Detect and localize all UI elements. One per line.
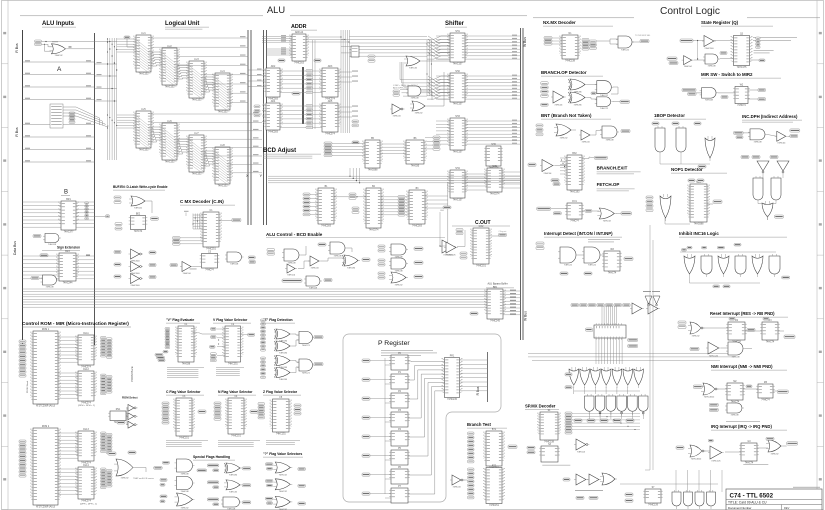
net label xyxy=(528,163,536,166)
svg-text:SH2: SH2 xyxy=(455,71,460,73)
net label xyxy=(213,486,219,489)
svg-text:74HC139: 74HC139 xyxy=(648,505,658,507)
wires xyxy=(707,203,713,205)
wires xyxy=(693,40,704,42)
svg-text:74HC245: 74HC245 xyxy=(490,321,500,323)
net label xyxy=(652,122,659,125)
net label xyxy=(693,385,702,388)
net label xyxy=(669,62,678,65)
cascade bundle into LU2 xyxy=(151,52,162,53)
svg-text:Logical Unit: Logical Unit xyxy=(165,21,199,27)
svg-text:74HC08: 74HC08 xyxy=(753,141,762,143)
svg-text:74HC151: 74HC151 xyxy=(179,438,189,440)
inhibit OR gate 3 xyxy=(718,254,729,277)
svg-text:74HC00: 74HC00 xyxy=(134,207,143,209)
OR gate xyxy=(273,496,292,510)
net labels xyxy=(582,39,589,42)
logical unit IC LU3 xyxy=(187,59,206,102)
net label xyxy=(292,92,300,95)
net label xyxy=(213,503,219,506)
net label xyxy=(688,92,697,95)
net label xyxy=(763,318,769,321)
BCD detect IC B6 xyxy=(404,138,426,168)
net label xyxy=(160,484,165,487)
sync AND gate Y4 xyxy=(771,176,781,203)
svg-text:C flag out: C flag out xyxy=(499,230,507,233)
svg-text:74HC151: 74HC151 xyxy=(489,505,499,507)
net label xyxy=(207,498,219,501)
svg-text:74HC04: 74HC04 xyxy=(581,141,590,143)
net label xyxy=(565,373,572,376)
net label xyxy=(211,328,217,331)
MIR distribution bus xyxy=(302,67,304,124)
buffer xyxy=(708,446,724,462)
net labels xyxy=(162,402,169,405)
P flag flip-flop P2 xyxy=(389,391,410,408)
net label xyxy=(680,39,693,42)
net label xyxy=(600,419,608,422)
OR gate xyxy=(274,368,292,381)
svg-text:ADDR: ADDR xyxy=(291,24,307,30)
AND gate xyxy=(595,81,614,97)
buffer xyxy=(702,36,716,50)
adder IC AD5 xyxy=(320,100,340,136)
svg-text:74HC688: 74HC688 xyxy=(368,170,378,172)
svg-text:74HC21: 74HC21 xyxy=(600,108,609,110)
AND gate xyxy=(389,258,408,272)
svg-text:74HC251: 74HC251 xyxy=(206,249,216,251)
pass-through diagonal wires xyxy=(190,66,204,77)
logical unit IC LU1 xyxy=(134,33,153,76)
svg-text:Interrupt Detect (INT.ON / INT: Interrupt Detect (INT.ON / INT.INP) xyxy=(544,231,613,236)
svg-text:74HC85: 74HC85 xyxy=(411,166,420,168)
A register input wires xyxy=(23,61,95,63)
X Y bus taps to adders xyxy=(249,69,267,71)
OR gate xyxy=(274,341,292,354)
net labels xyxy=(165,328,170,330)
1BOP AND gate D2 xyxy=(676,126,686,155)
decode OR gate row1 2 xyxy=(580,367,590,388)
net label xyxy=(736,136,743,139)
svg-text:ALU Control - BCD Enable: ALU Control - BCD Enable xyxy=(266,232,323,237)
net label xyxy=(709,403,718,406)
pass-through diagonal wires xyxy=(163,128,177,139)
net labels xyxy=(646,196,653,199)
wires xyxy=(465,173,487,175)
sync buffer Y1 xyxy=(757,161,769,173)
MIR2 latch IC M1 xyxy=(590,323,626,340)
MIR SW IC W2 xyxy=(733,84,750,107)
svg-text:X: X xyxy=(246,173,249,178)
svg-text:DL11: DL11 xyxy=(83,333,89,335)
logical unit IC LU6 xyxy=(160,121,179,164)
wire B1 to B2 xyxy=(334,196,366,198)
wire xyxy=(422,60,450,62)
label left of M1 xyxy=(585,328,592,331)
net labels xyxy=(267,249,275,252)
logical unit IC LU8 xyxy=(213,145,232,188)
bottom AND gate 2 xyxy=(684,490,693,509)
wires xyxy=(758,202,765,205)
wires B5 to B6 xyxy=(380,143,406,145)
svg-text:74HC283: 74HC283 xyxy=(412,226,422,228)
AND gate xyxy=(406,86,423,99)
svg-text:LU4: LU4 xyxy=(220,71,225,73)
svg-text:DL13: DL13 xyxy=(83,429,89,431)
junction dots xyxy=(218,339,219,340)
net label xyxy=(160,495,167,498)
OR gate xyxy=(404,56,422,69)
net labels xyxy=(306,70,313,73)
net label D xyxy=(708,439,713,442)
svg-text:74HC688: 74HC688 xyxy=(694,224,704,226)
light vertical pair xyxy=(312,40,314,129)
wires xyxy=(292,334,299,335)
OR gate xyxy=(389,272,408,286)
BCD IC B1 xyxy=(316,186,336,228)
net label xyxy=(157,356,165,359)
svg-text:74HC04: 74HC04 xyxy=(287,274,296,276)
P flag flip-flop P3 xyxy=(389,410,410,427)
adder IC AD2 xyxy=(264,65,282,101)
wires PR1 to R bus xyxy=(460,359,488,361)
net label xyxy=(640,40,649,43)
note text xyxy=(381,349,433,352)
buffer xyxy=(682,56,694,68)
wire xyxy=(370,379,391,381)
adder IC AD3 xyxy=(320,65,340,101)
svg-text:Y: Y xyxy=(260,173,263,178)
OR gate xyxy=(597,208,616,222)
bottom AND gate 3 xyxy=(695,490,704,509)
NMI IC M2 xyxy=(725,381,745,404)
wires xyxy=(552,37,562,39)
OR gate xyxy=(554,124,573,139)
net label xyxy=(265,463,273,466)
wire xyxy=(457,246,465,248)
svg-text:IRQ Interrupt (IRQ -> IRQ PND): IRQ Interrupt (IRQ -> IRQ PND) xyxy=(711,424,772,429)
svg-text:"V" Flag Evaluate: "V" Flag Evaluate xyxy=(166,318,194,322)
net label xyxy=(746,385,752,388)
net label xyxy=(362,416,370,419)
svg-text:ROM 1: ROM 1 xyxy=(42,329,50,331)
svg-text:74HC153: 74HC153 xyxy=(139,74,149,76)
svg-text:74HC86: 74HC86 xyxy=(229,474,238,476)
net labels xyxy=(101,374,107,377)
svg-text:LU5: LU5 xyxy=(141,109,146,111)
svg-text:BX2: BX2 xyxy=(572,153,577,155)
bypass buffer IC BB1 xyxy=(485,287,505,323)
svg-text:74HC153: 74HC153 xyxy=(139,150,149,152)
bottom AND gate 1 xyxy=(672,490,681,509)
net label xyxy=(597,304,605,307)
bottom AND gate 4 xyxy=(707,490,716,509)
reset IC R2 xyxy=(726,320,747,344)
MIR latch DL14 xyxy=(76,465,96,503)
net labels xyxy=(306,105,313,108)
svg-text:R Bus: R Bus xyxy=(15,43,19,53)
bus xyxy=(22,30,24,345)
net label xyxy=(155,354,163,357)
net labels xyxy=(378,259,385,262)
sign ext output bundle xyxy=(76,255,95,257)
svg-text:74HC32: 74HC32 xyxy=(120,477,129,479)
net label xyxy=(589,496,598,499)
B output bundle xyxy=(76,201,95,203)
buffer xyxy=(129,262,144,275)
svg-text:74HC151: 74HC151 xyxy=(476,266,486,268)
long vertical wires xyxy=(649,225,651,470)
svg-text:BT1: BT1 xyxy=(492,429,497,431)
svg-text:74HC4002: 74HC4002 xyxy=(691,458,702,460)
svg-text:SH4: SH4 xyxy=(455,168,460,170)
C MX decoder IC C1 xyxy=(201,210,221,251)
net label xyxy=(667,57,677,60)
net label xyxy=(584,272,592,275)
net label FETCH xyxy=(537,207,551,210)
svg-text:74HC21: 74HC21 xyxy=(621,49,630,51)
svg-text:C Flag Value Selector: C Flag Value Selector xyxy=(166,390,201,394)
net label xyxy=(698,165,706,168)
net label xyxy=(628,338,638,341)
svg-text:74HC74: 74HC74 xyxy=(761,400,770,402)
buffer xyxy=(129,274,144,287)
MIR latch DL12 xyxy=(76,369,96,405)
net label xyxy=(362,454,370,457)
svg-text:74HC540: 74HC540 xyxy=(130,285,140,287)
net label xyxy=(741,156,749,159)
pass-through diagonal wires xyxy=(216,152,230,163)
net label xyxy=(682,249,687,252)
net label xyxy=(267,484,273,487)
net label xyxy=(414,247,423,250)
branch exit IC BX2 xyxy=(565,153,584,194)
buffer xyxy=(126,405,138,412)
wire xyxy=(42,44,52,47)
svg-text:74HC32: 74HC32 xyxy=(229,491,238,493)
net label xyxy=(114,275,121,278)
svg-text:74HC244: 74HC244 xyxy=(63,283,73,285)
ADDR IC AD1 xyxy=(290,31,308,65)
net label xyxy=(697,179,704,182)
svg-text:1BOP Detector: 1BOP Detector xyxy=(654,113,685,118)
svg-text:BB1: BB1 xyxy=(493,287,498,289)
svg-text:NMI Interrupt (NMI -> NMI PND): NMI Interrupt (NMI -> NMI PND) xyxy=(711,364,773,369)
svg-text:74HC32: 74HC32 xyxy=(180,507,189,509)
Z selector IC F5 xyxy=(270,397,291,436)
pass-through diagonal wires xyxy=(137,40,151,51)
svg-text:AD3: AD3 xyxy=(328,65,333,68)
wire row xyxy=(42,41,118,43)
net labels Q in xyxy=(754,49,774,52)
net label xyxy=(278,59,285,62)
svg-text:74HC32: 74HC32 xyxy=(603,220,612,222)
wires xyxy=(555,165,567,167)
net labels xyxy=(69,112,75,114)
svg-text:74HC574: 74HC574 xyxy=(369,230,379,232)
net label xyxy=(717,246,724,249)
svg-text:74HC251: 74HC251 xyxy=(228,364,238,366)
svg-text:74HC32: 74HC32 xyxy=(691,335,700,337)
svg-text:Inhibit INC16 Logic: Inhibit INC16 Logic xyxy=(679,231,719,236)
svg-text:74HC157: 74HC157 xyxy=(453,200,463,202)
logical unit input bundle xyxy=(107,38,109,160)
buffer xyxy=(129,249,144,262)
AND gate xyxy=(558,247,578,266)
shifter IC SH1 xyxy=(448,31,467,66)
net label xyxy=(352,141,359,144)
svg-text:Reset Interrupt (RES -> RB PND: Reset Interrupt (RES -> RB PND) xyxy=(710,311,775,316)
BCD result bus xyxy=(268,175,521,177)
svg-text:FETCH.OP: FETCH.OP xyxy=(597,182,620,187)
net labels xyxy=(107,469,113,472)
OR gate xyxy=(224,480,242,493)
MIR latch DL13 xyxy=(76,429,96,465)
svg-text:PROM Bank: PROM Bank xyxy=(130,366,134,382)
OR gate xyxy=(129,196,147,209)
OR gate xyxy=(600,473,617,485)
AND gate xyxy=(600,126,619,141)
shifter input weave xyxy=(427,36,450,39)
net labels xyxy=(101,432,107,435)
AND gate xyxy=(328,242,347,257)
net label xyxy=(574,419,582,422)
clock chain wire xyxy=(384,358,386,494)
decode AND gate row2 5 xyxy=(628,394,638,415)
svg-text:BRANCH.OP Detector: BRANCH.OP Detector xyxy=(541,70,587,75)
wires xyxy=(301,246,306,255)
net label xyxy=(242,501,251,504)
note below xyxy=(743,463,768,466)
svg-text:74HC163: 74HC163 xyxy=(294,63,304,65)
aux IC SH5 xyxy=(485,166,504,196)
svg-text:74HC157: 74HC157 xyxy=(453,152,463,154)
net label xyxy=(758,98,766,101)
title block xyxy=(726,487,822,510)
wires xyxy=(717,388,727,390)
svg-text:Control Logic: Control Logic xyxy=(660,6,720,17)
net labels xyxy=(468,432,475,435)
sign extension IC BR3 xyxy=(57,251,78,285)
net label xyxy=(571,304,579,307)
svg-text:ROM Select: ROM Select xyxy=(122,395,138,399)
net label xyxy=(580,304,588,307)
net labels col2 xyxy=(590,40,597,43)
C1 out wire xyxy=(219,220,232,222)
AND gate xyxy=(297,332,315,347)
svg-text:74HC32: 74HC32 xyxy=(409,67,418,69)
IRQ IC G3 xyxy=(739,441,759,465)
svg-text:74HC04: 74HC04 xyxy=(684,66,693,68)
bus xyxy=(522,28,524,340)
net labels xyxy=(107,433,113,436)
net label xyxy=(158,359,165,362)
svg-text:74HC08: 74HC08 xyxy=(410,97,419,99)
svg-text:74HC02: 74HC02 xyxy=(54,55,63,57)
shifter aux IC SH4 xyxy=(448,168,467,202)
svg-text:LU7: LU7 xyxy=(194,133,199,135)
P flag flip-flop P1 xyxy=(389,372,410,389)
BCD detect IC B5 xyxy=(363,138,382,172)
buffer xyxy=(646,303,660,314)
branch test IC BT1 xyxy=(484,429,504,470)
net label xyxy=(267,502,273,505)
net label xyxy=(747,328,755,331)
net label xyxy=(114,251,121,254)
svg-text:74HC08: 74HC08 xyxy=(48,244,57,246)
net label xyxy=(672,122,679,125)
svg-text:74HC04: 74HC04 xyxy=(392,115,401,117)
svg-text:ALU Bypass Buffer: ALU Bypass Buffer xyxy=(488,283,508,286)
svg-text:74HC32: 74HC32 xyxy=(414,112,423,114)
buffer xyxy=(390,104,405,117)
net label xyxy=(314,59,321,62)
net label xyxy=(614,304,622,307)
bundle taps into LU5 xyxy=(117,114,136,116)
shifter output wires to W bus xyxy=(465,35,521,37)
shifter IC SH2 xyxy=(448,71,467,106)
wires from note box to logical unit bundle xyxy=(63,107,100,125)
net label xyxy=(623,304,631,307)
state register IC Q3 xyxy=(731,33,751,69)
R Bus line in P register xyxy=(487,352,489,402)
decode AND gate row2 6 xyxy=(639,394,649,416)
wires A bus to bundle xyxy=(95,63,117,65)
OR gate xyxy=(50,44,68,57)
svg-text:LU1: LU1 xyxy=(141,33,146,35)
svg-text:74HC151: 74HC151 xyxy=(276,434,286,436)
svg-text:Sign Extension: Sign Extension xyxy=(57,245,80,249)
wire xyxy=(193,266,202,268)
net label xyxy=(541,103,549,106)
wires xyxy=(743,132,750,134)
OR gate xyxy=(274,329,292,342)
wires xyxy=(704,450,710,452)
net label xyxy=(213,469,219,472)
wires labels to B3 xyxy=(405,196,409,198)
svg-text:B: B xyxy=(64,190,68,196)
AND gate xyxy=(41,275,59,288)
svg-text:74HC153: 74HC153 xyxy=(192,174,202,176)
svg-text:PROM Bank: PROM Bank xyxy=(27,380,29,393)
svg-text:74HC193: 74HC193 xyxy=(570,192,580,194)
net label xyxy=(414,261,423,264)
wire xyxy=(370,398,391,400)
net label xyxy=(790,129,800,132)
net label xyxy=(210,345,216,348)
net label xyxy=(721,96,728,99)
net labels xyxy=(433,136,440,139)
wires xyxy=(578,254,584,256)
inhibit AND gate 4 xyxy=(735,254,746,277)
wire xyxy=(370,474,391,476)
net labels xyxy=(210,353,216,356)
net label xyxy=(248,333,255,336)
svg-text:(DPH + DPH + 1): (DPH + DPH + 1) xyxy=(80,504,97,506)
svg-text:TRAP on ALU B vernier: TRAP on ALU B vernier xyxy=(133,477,154,480)
wire xyxy=(423,91,432,100)
net labels xyxy=(19,340,26,343)
svg-text:74HC151: 74HC151 xyxy=(231,436,241,438)
net label xyxy=(734,243,741,246)
svg-text:BNT (Branch Not Taken): BNT (Branch Not Taken) xyxy=(541,113,592,118)
OR gate xyxy=(688,322,705,337)
net label xyxy=(282,279,302,282)
AND gate xyxy=(175,477,195,493)
AND gate xyxy=(595,97,614,110)
net labels xyxy=(303,193,310,196)
net label xyxy=(777,390,788,393)
